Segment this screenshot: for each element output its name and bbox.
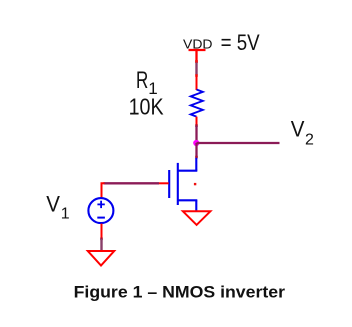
wire below V1 (101, 224, 103, 239)
gate wire (159, 182, 169, 184)
wire (196, 117, 198, 125)
svg-text:2: 2 (305, 131, 314, 148)
svg-text:Figure 1 – NMOS inverter: Figure 1 – NMOS inverter (74, 284, 286, 302)
pin dot (195, 74, 198, 77)
plus sign (97, 201, 104, 208)
svg-text:10K: 10K (129, 93, 165, 119)
pin segment (100, 239, 102, 251)
transistor Q1 (NMOS) (169, 158, 197, 211)
pin dot (195, 156, 198, 159)
pin segment (wire overlap) (195, 63, 197, 75)
resistor R1 (191, 90, 203, 117)
wire segment (104, 182, 160, 184)
wire corner (102, 183, 105, 197)
svg-text:V: V (46, 192, 60, 217)
svg-text:1: 1 (61, 206, 70, 223)
minus sign (97, 217, 105, 219)
pin dot (195, 60, 198, 63)
bulk dot (194, 183, 196, 185)
wire (196, 76, 198, 91)
ground (transistor source) (183, 211, 211, 225)
ground (V1) (88, 251, 114, 266)
power symbol VDD (189, 50, 206, 62)
svg-text:R: R (136, 67, 148, 94)
node junction dot (193, 140, 199, 146)
pin dot (100, 238, 103, 241)
pin segment (195, 143, 197, 157)
voltage source V1 (88, 198, 113, 223)
pin segment (195, 126, 197, 143)
svg-text:V: V (291, 117, 305, 142)
svg-text:= 5V: = 5V (221, 30, 260, 55)
wire node to V2 (197, 142, 280, 144)
pin dot (195, 124, 198, 127)
